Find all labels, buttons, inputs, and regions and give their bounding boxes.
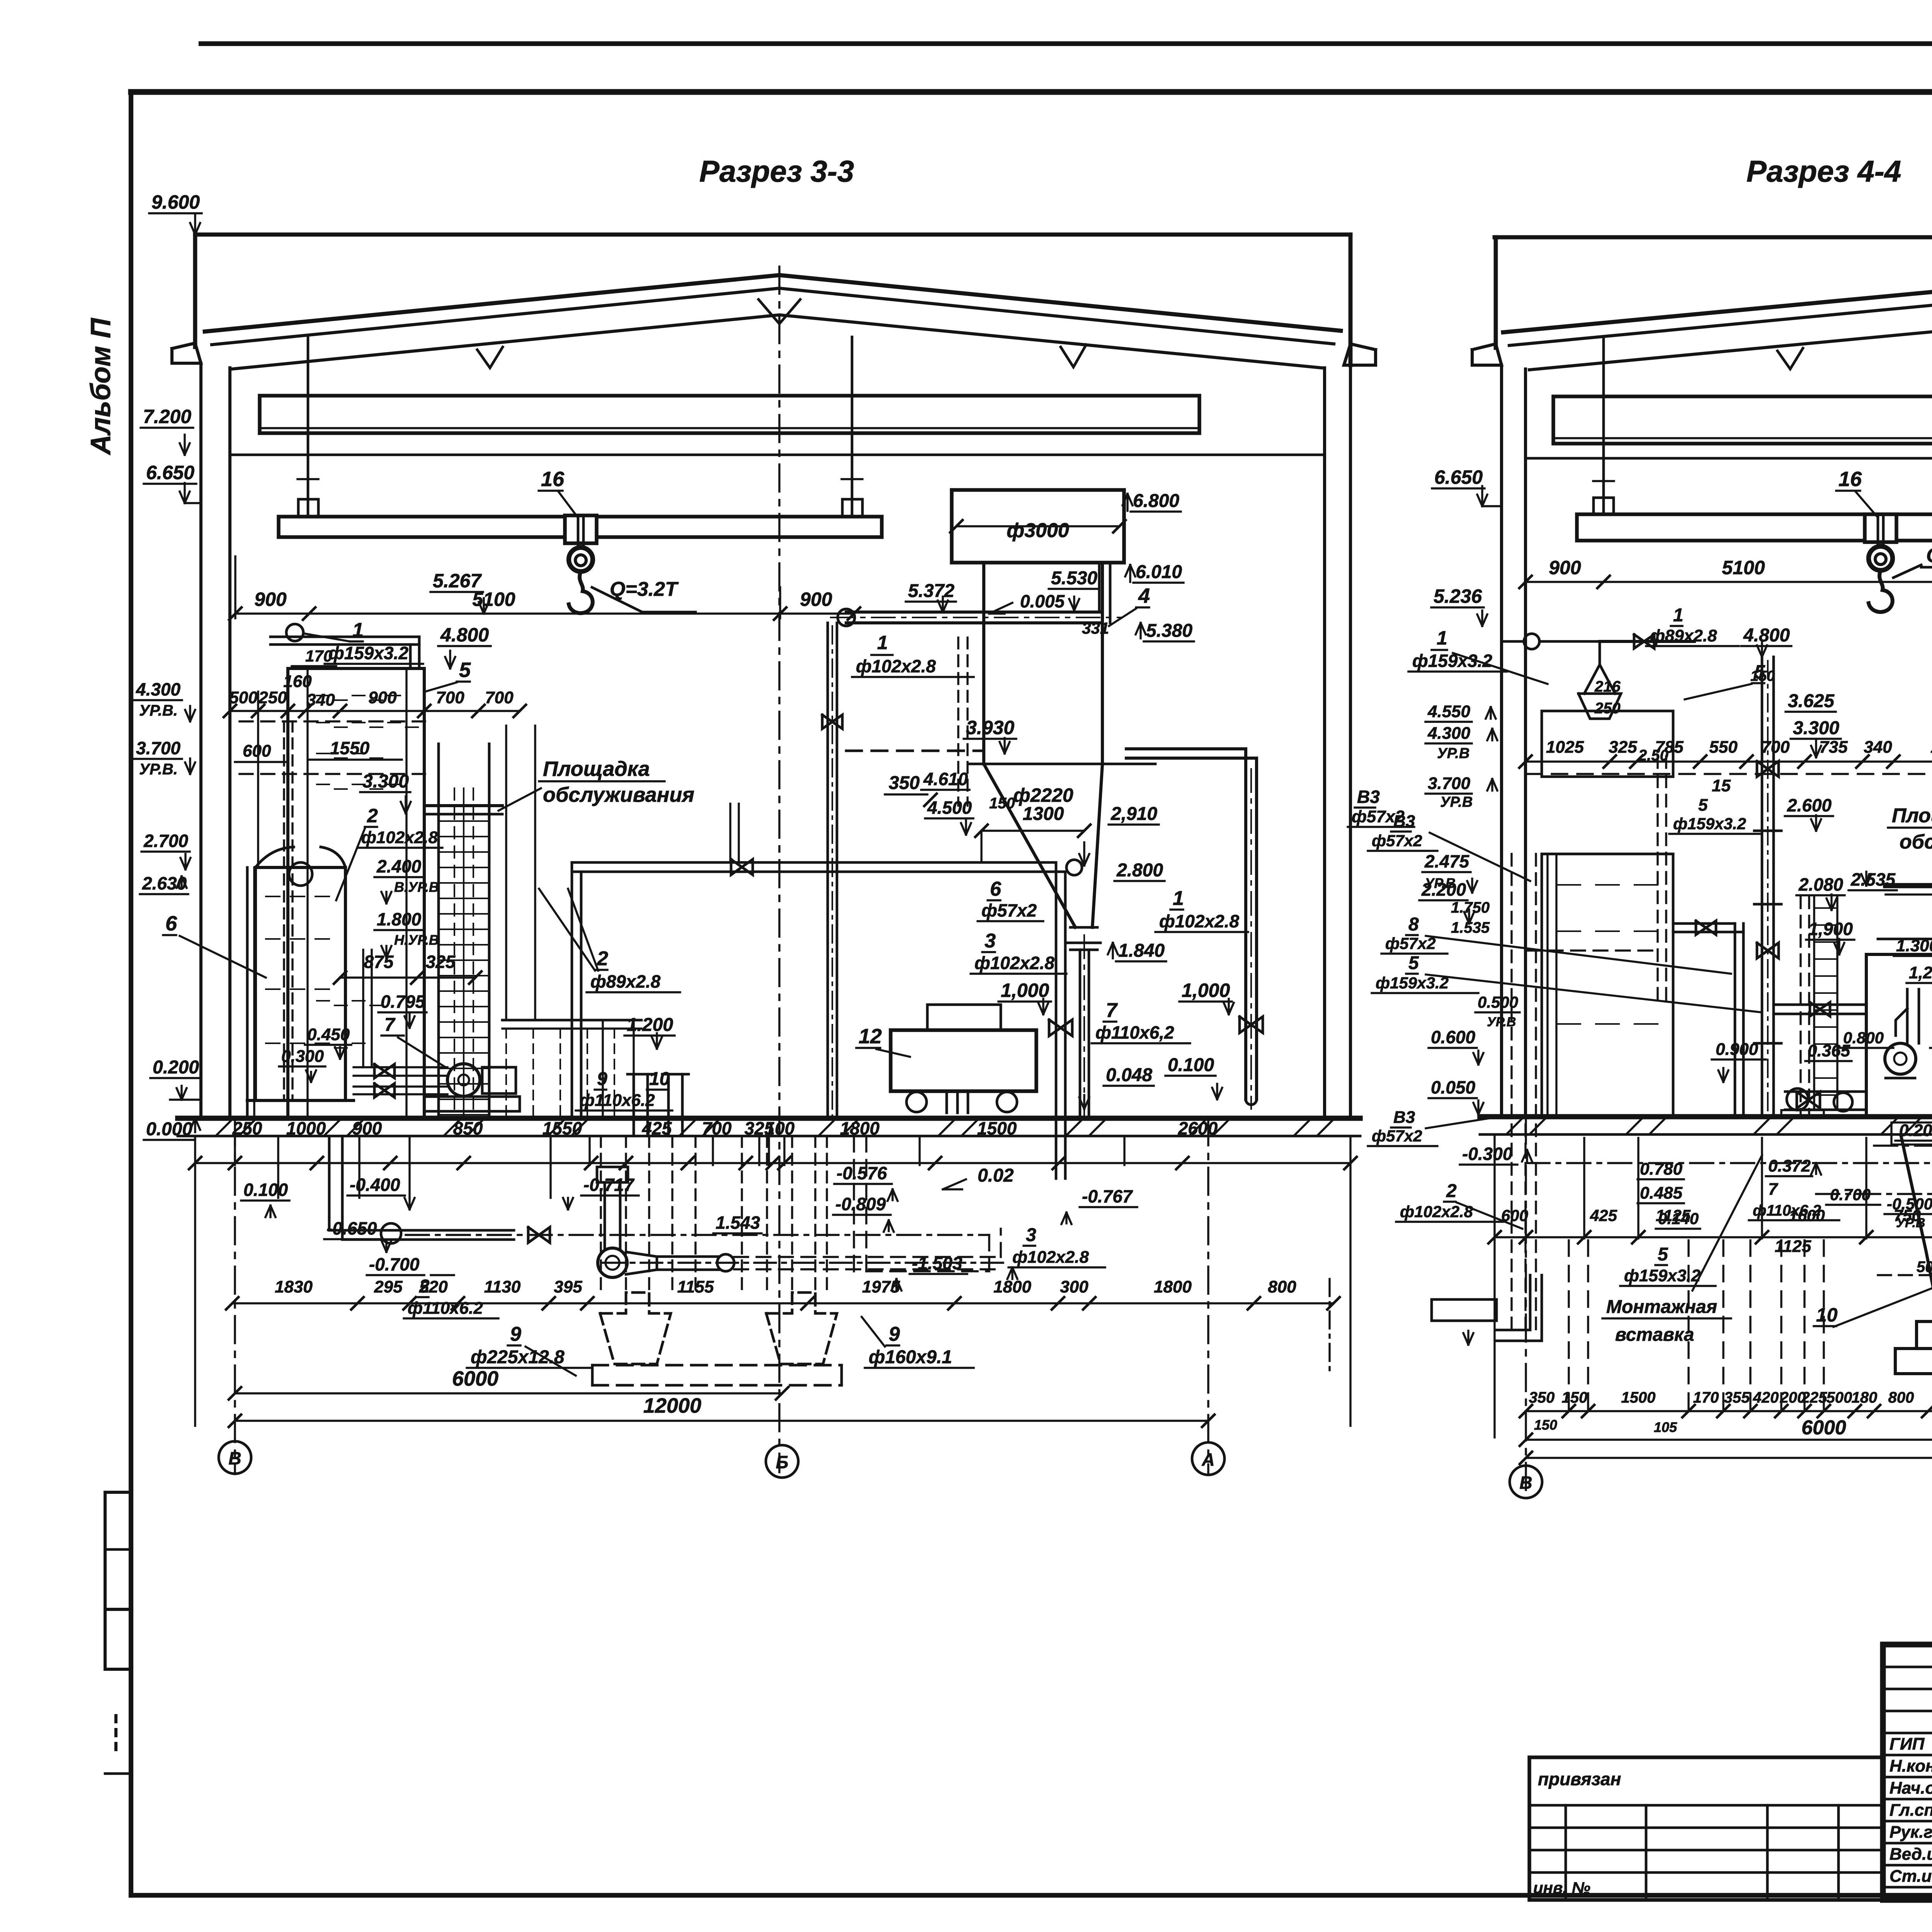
sec4 ext vertical b xyxy=(1568,1240,1570,1412)
svg-text:0.100: 0.100 xyxy=(1168,1055,1214,1075)
svg-text:6: 6 xyxy=(990,878,1002,900)
svg-text:ф110х6,2: ф110х6,2 xyxy=(1095,1022,1174,1043)
sec3 grid circle V xyxy=(219,1441,251,1474)
svg-text:0.048: 0.048 xyxy=(1106,1065,1152,1085)
sec4 unit5 funnel xyxy=(1584,665,1615,694)
sec3 riser pipe a xyxy=(827,623,829,1118)
svg-text:331: 331 xyxy=(1082,619,1109,637)
sec4 dim 6000 line xyxy=(1526,1439,1932,1440)
sec4 dim row A below floor xyxy=(1495,1236,1932,1238)
svg-text:1.535: 1.535 xyxy=(1451,919,1490,936)
svg-text:1830: 1830 xyxy=(275,1277,313,1296)
svg-text:УР.В.: УР.В. xyxy=(139,702,178,719)
sec3 ladder rail R xyxy=(488,744,491,1118)
svg-text:295: 295 xyxy=(374,1277,403,1296)
sec3 crane trolley xyxy=(565,515,597,543)
svg-text:7.200: 7.200 xyxy=(143,406,191,427)
svg-text:1000: 1000 xyxy=(286,1118,326,1138)
sec4 dim row B below floor xyxy=(1526,1410,1932,1412)
svg-text:7: 7 xyxy=(1106,999,1118,1022)
sec3 pipe centerline bf xyxy=(406,1234,989,1236)
svg-text:150: 150 xyxy=(1534,1417,1557,1433)
sec3 dashed riser pair xyxy=(957,638,959,806)
svg-text:В.УР.В: В.УР.В xyxy=(394,879,439,895)
svg-text:2.400: 2.400 xyxy=(376,856,422,876)
sec3 lower platform xyxy=(502,1019,641,1022)
svg-text:0.372: 0.372 xyxy=(1768,1156,1811,1175)
sec4 ext vertical xyxy=(1637,1138,1639,1238)
sec4 pipe h2 xyxy=(1774,1003,1866,1006)
svg-text:ф159х3.2: ф159х3.2 xyxy=(328,643,408,663)
sec4 platform thick line xyxy=(1886,883,1932,888)
svg-text:4.800: 4.800 xyxy=(440,624,489,646)
sec3 crane clamp left xyxy=(298,499,318,517)
svg-text:Разрез 3-3: Разрез 3-3 xyxy=(699,154,854,188)
sec3 suction reducer xyxy=(626,1252,657,1274)
svg-text:В: В xyxy=(228,1448,241,1468)
sec4 roof truss bottom chord xyxy=(1529,318,1932,370)
sec3 pit dashed vertical xyxy=(826,1136,828,1293)
svg-text:ф89х2.8: ф89х2.8 xyxy=(1650,626,1717,645)
svg-text:1,900: 1,900 xyxy=(1808,919,1853,939)
sec4 pipe h1 xyxy=(1673,922,1735,925)
svg-text:ф89х2.8: ф89х2.8 xyxy=(590,971,661,992)
svg-text:5: 5 xyxy=(1658,1244,1668,1265)
svg-text:2,910: 2,910 xyxy=(1111,804,1157,824)
sec4 vertical pump xyxy=(1885,1043,1916,1074)
svg-text:-0.576: -0.576 xyxy=(837,1163,887,1183)
sec3 pit dashed vertical xyxy=(694,1136,696,1293)
sec3 hook wheel xyxy=(569,548,593,571)
svg-text:1: 1 xyxy=(352,619,364,641)
sec4 VZ pipe dashed xyxy=(1526,949,1658,951)
sec4 valve cluster circle xyxy=(1834,1093,1852,1111)
svg-text:900: 900 xyxy=(1549,557,1581,578)
sec3 platform top xyxy=(425,804,502,807)
sec4 ext vertical b xyxy=(1823,1240,1825,1412)
title block outer xyxy=(1883,1645,1932,1900)
svg-text:735: 735 xyxy=(1819,738,1848,757)
svg-text:6: 6 xyxy=(165,912,177,935)
sec3 ext vertical xyxy=(918,1138,920,1165)
sec3 rod a xyxy=(505,726,507,1020)
svg-text:ф3000: ф3000 xyxy=(1007,519,1069,542)
svg-text:3: 3 xyxy=(1026,1225,1036,1245)
sec3 rod b xyxy=(534,726,536,1020)
svg-text:Б: Б xyxy=(776,1452,789,1472)
sec3 dim row below floor xyxy=(195,1162,1350,1164)
svg-text:350: 350 xyxy=(1529,1389,1555,1406)
sec3 ceiling 7.200 line xyxy=(230,454,1325,456)
svg-text:420: 420 xyxy=(1753,1389,1779,1406)
svg-text:15: 15 xyxy=(1712,776,1731,795)
svg-text:5: 5 xyxy=(1408,953,1419,973)
svg-text:900: 900 xyxy=(800,588,832,610)
svg-text:1300: 1300 xyxy=(1023,804,1064,824)
svg-text:4.550: 4.550 xyxy=(1427,702,1471,721)
sec3 pit dashed vertical xyxy=(791,1136,793,1293)
svg-text:В3: В3 xyxy=(1393,812,1415,831)
sec4 riser dashed xyxy=(1656,756,1658,1005)
sec4 riser a xyxy=(1761,657,1764,1117)
sec4 dashed pipe bf a xyxy=(1510,854,1512,1333)
sec3 truss web right xyxy=(1061,345,1086,367)
svg-text:Q=3.2Т: Q=3.2Т xyxy=(610,578,679,600)
sec3 crane hook xyxy=(569,571,593,613)
sec4 pipe run b xyxy=(1526,1162,1932,1164)
sec4 riser b xyxy=(1734,923,1736,1117)
sec3 axis A line xyxy=(1207,1118,1209,1474)
svg-text:1975: 1975 xyxy=(862,1277,900,1296)
sec3 pump volute xyxy=(447,1064,480,1096)
svg-text:3.700: 3.700 xyxy=(1428,774,1471,793)
sec4 drain box left xyxy=(1432,1299,1497,1321)
sec3 pipe left of tank6 xyxy=(246,867,249,1118)
sec3 floor line 0.000 xyxy=(178,1116,1360,1121)
svg-text:5.530: 5.530 xyxy=(1051,568,1097,588)
sec4 pipe run a xyxy=(1874,1145,1932,1146)
svg-text:0.100: 0.100 xyxy=(243,1180,288,1200)
sec4 floor hatch xyxy=(1754,1118,1770,1134)
frame top border xyxy=(131,89,1932,95)
svg-text:250: 250 xyxy=(1594,700,1621,717)
sec3 foundation trapezoid L xyxy=(600,1293,671,1364)
sec3 base slab top xyxy=(592,1364,842,1367)
sec3 floor hatch xyxy=(549,1120,564,1135)
sec3 tank4 cone right xyxy=(1092,764,1102,927)
sec3 ceiling beam band xyxy=(260,396,1199,433)
svg-text:6000: 6000 xyxy=(1801,1417,1846,1439)
svg-text:4.300: 4.300 xyxy=(136,679,181,699)
svg-text:1.750: 1.750 xyxy=(1451,899,1490,916)
sec3 dashed pipe 3.930 xyxy=(846,750,981,752)
svg-text:700: 700 xyxy=(485,688,514,707)
svg-text:160: 160 xyxy=(283,672,312,691)
svg-text:1,200: 1,200 xyxy=(1909,963,1932,982)
sec3 crane dim line xyxy=(235,612,854,614)
svg-text:4.800: 4.800 xyxy=(1743,625,1790,646)
sec3 vessel5 inner R xyxy=(405,668,407,1118)
sec3 floor hatch xyxy=(216,1120,232,1135)
svg-text:2.200: 2.200 xyxy=(1421,879,1466,900)
svg-text:395: 395 xyxy=(554,1277,582,1296)
sec4 crane trolley xyxy=(1865,514,1896,542)
sec4 ext vertical b xyxy=(1803,1240,1805,1412)
sec3 roof chord 2 xyxy=(212,288,1334,345)
svg-text:Н.УР.В: Н.УР.В xyxy=(394,932,439,948)
svg-text:700: 700 xyxy=(1761,738,1790,757)
sec3 roof top chord xyxy=(205,275,1341,332)
svg-text:300: 300 xyxy=(1060,1277,1088,1296)
svg-text:6.650: 6.650 xyxy=(1434,466,1483,488)
svg-text:ф102х2.8: ф102х2.8 xyxy=(1159,911,1239,931)
svg-text:Рук.гр.: Рук.гр. xyxy=(1889,1823,1932,1842)
svg-text:0.02: 0.02 xyxy=(978,1165,1014,1186)
sec3 pipe unit12 xyxy=(572,862,1056,1179)
sec3 crane rod right xyxy=(851,337,854,517)
sec3 right pipe outer xyxy=(1126,749,1246,1099)
svg-text:500: 500 xyxy=(1827,1389,1852,1406)
sec3 drop pipe bf xyxy=(328,1136,331,1217)
svg-text:Q=3.2Т: Q=3.2Т xyxy=(1926,544,1932,567)
svg-text:1: 1 xyxy=(1173,887,1184,910)
sec3 right parapet outer xyxy=(1349,235,1353,365)
sec3 feed pipe flange circle xyxy=(838,609,855,626)
sec3 tank6 body xyxy=(255,867,345,1100)
svg-text:2.475: 2.475 xyxy=(1424,851,1470,871)
sec3 pump motor xyxy=(482,1067,516,1094)
sec4 pit base bottom xyxy=(1895,1372,1932,1375)
sec3 unit12 body xyxy=(891,1030,1036,1091)
sec4 tank13 flange xyxy=(1878,938,1932,940)
sec3 floor hatch xyxy=(444,1120,460,1135)
sec4 tank13 body xyxy=(1866,954,1932,1117)
svg-text:ф2220: ф2220 xyxy=(1013,784,1073,806)
sec3 floor hatch xyxy=(1294,1120,1310,1135)
svg-text:ф57х2: ф57х2 xyxy=(981,900,1037,920)
svg-text:ф110х6.2: ф110х6.2 xyxy=(580,1091,655,1110)
svg-text:0.140: 0.140 xyxy=(1658,1209,1699,1228)
svg-text:-0.650: -0.650 xyxy=(327,1218,377,1238)
svg-text:3.930: 3.930 xyxy=(966,717,1014,738)
sec4 unit5 pipe up xyxy=(1599,641,1601,665)
left margin tick xyxy=(105,1772,131,1775)
sec4 injector elbow xyxy=(1896,1009,1907,1036)
svg-text:875: 875 xyxy=(364,952,394,972)
sec3 pipe flange bf xyxy=(381,1223,401,1243)
sec3 tank6 top pump xyxy=(289,862,312,886)
svg-text:785: 785 xyxy=(1655,738,1684,757)
sec3 left cornice slab xyxy=(172,343,201,363)
sec4 drain elbow xyxy=(1497,1275,1530,1330)
sec3 ceiling band inner line xyxy=(260,427,1199,429)
svg-text:5: 5 xyxy=(1698,796,1708,815)
sec3 ext vertical xyxy=(588,1138,590,1165)
sec4 ceiling 7.200 line xyxy=(1526,457,1932,460)
svg-text:УР.В.: УР.В. xyxy=(139,761,178,778)
sec4 pit funnel outline xyxy=(1901,1136,1932,1321)
svg-text:6000: 6000 xyxy=(452,1367,498,1390)
sec3 unit12 hat xyxy=(927,1005,1001,1030)
sec3 grid circle A xyxy=(1192,1442,1225,1475)
svg-text:0.600: 0.600 xyxy=(1431,1027,1476,1047)
sec3 left parapet outer xyxy=(193,235,197,347)
svg-text:50: 50 xyxy=(1917,1259,1932,1276)
sec4 ladder rail a xyxy=(1813,896,1815,1109)
sec3 top pipe flange xyxy=(286,624,303,641)
sec4 dim 12000 line xyxy=(1526,1457,1932,1459)
sec4 crane beam xyxy=(1577,514,1932,541)
svg-text:-0.700: -0.700 xyxy=(369,1254,420,1274)
sec3 vessel5 outer xyxy=(288,668,424,1118)
sec3 ext vertical xyxy=(1123,1138,1125,1165)
svg-text:3.625: 3.625 xyxy=(1788,691,1835,711)
sec3 crane clamp right xyxy=(842,499,862,517)
sec3 ridge web V xyxy=(759,299,800,324)
sec3 dim row top xyxy=(230,710,520,712)
svg-text:1125: 1125 xyxy=(1775,1237,1811,1256)
sec3 drop pipe xyxy=(1079,950,1082,1118)
sec3 ext vertical xyxy=(549,1138,551,1165)
svg-text:2.600: 2.600 xyxy=(1787,795,1832,815)
sec3 dim 12000 xyxy=(235,1420,1208,1422)
sec3 floor hatch xyxy=(325,1120,340,1135)
sec3 top 9.600 line / parapet top xyxy=(195,233,1350,237)
svg-text:В3: В3 xyxy=(1357,787,1380,807)
svg-text:170: 170 xyxy=(1693,1389,1719,1406)
sec4 injector pipe xyxy=(1906,989,1909,1043)
svg-text:2.080: 2.080 xyxy=(1798,874,1844,895)
sec4 unit5 tank xyxy=(1542,711,1673,777)
svg-text:ф57х2: ф57х2 xyxy=(1372,1127,1422,1145)
svg-text:7: 7 xyxy=(1768,1180,1779,1199)
svg-text:700: 700 xyxy=(436,688,464,707)
svg-text:550: 550 xyxy=(1709,738,1738,757)
sec3 riser x1480 xyxy=(571,862,573,1118)
sec4 floor hatch xyxy=(1507,1118,1522,1134)
sec3 unit12 wheel L xyxy=(906,1092,927,1112)
sec4 top 9.600 line xyxy=(1495,235,1932,240)
sec3 foundation trapezoid R xyxy=(766,1293,837,1364)
svg-text:4.500: 4.500 xyxy=(927,798,972,818)
sec4 small pump xyxy=(1787,1088,1808,1110)
svg-text:0.900: 0.900 xyxy=(1716,1040,1759,1059)
svg-text:1155: 1155 xyxy=(677,1277,714,1296)
svg-text:2.630: 2.630 xyxy=(142,873,187,893)
svg-text:355: 355 xyxy=(1724,1389,1750,1406)
svg-text:4.300: 4.300 xyxy=(1427,724,1471,743)
sec3 cone flange 1 xyxy=(1070,926,1097,929)
sec4 roof chord 2 xyxy=(1509,292,1932,347)
sec4 left tank body xyxy=(1542,854,1673,1117)
sec4 ext vertical xyxy=(1865,1138,1867,1238)
svg-text:4.610: 4.610 xyxy=(923,769,968,789)
svg-text:340: 340 xyxy=(1864,738,1892,757)
sec3 tank4 shell right xyxy=(1101,563,1104,764)
sec3 feed pipe elbow xyxy=(1098,564,1101,612)
attachment table outer xyxy=(1529,1757,1883,1900)
sec3 floor hatch xyxy=(939,1120,954,1135)
svg-text:900: 900 xyxy=(368,688,397,707)
sec4 crane dim line xyxy=(1526,581,1932,583)
sec4 ladder rail b xyxy=(1836,896,1838,1109)
sec4 roof top chord xyxy=(1503,279,1932,334)
svg-text:0.005: 0.005 xyxy=(1020,591,1065,611)
sec3 tank4 shell left xyxy=(982,563,985,764)
sec4 left parapet outer xyxy=(1494,237,1498,348)
sec3 pump base xyxy=(424,1097,520,1111)
svg-text:0.365: 0.365 xyxy=(1808,1041,1850,1060)
svg-text:1800: 1800 xyxy=(840,1118,880,1138)
sec4 left cornice slab xyxy=(1472,344,1502,365)
sec4 truss web left xyxy=(1777,348,1803,369)
svg-text:5: 5 xyxy=(459,658,471,682)
svg-text:16: 16 xyxy=(1838,468,1862,491)
svg-text:-0.767: -0.767 xyxy=(1082,1186,1133,1206)
svg-text:325: 325 xyxy=(1609,738,1637,757)
sec3 pit dashed vertical xyxy=(741,1136,743,1293)
svg-text:ф102х2.8: ф102х2.8 xyxy=(975,953,1054,973)
left margin staple mark 2 xyxy=(105,1609,131,1669)
svg-text:обслуживания: обслуживания xyxy=(1900,831,1932,853)
sec3 crane rod left xyxy=(307,337,310,517)
sec3 feed pipe top xyxy=(846,611,1099,614)
sec4 left wall outer xyxy=(1500,365,1503,1117)
left margin dashed mark xyxy=(114,1716,117,1750)
sec3 left wall outer xyxy=(199,363,202,1118)
sec3 ext vertical xyxy=(277,1138,279,1165)
sec3 unit12 wheel R xyxy=(997,1092,1017,1112)
sec3 pipe9 riser xyxy=(633,1074,635,1136)
svg-text:ф57х2: ф57х2 xyxy=(1372,832,1422,850)
svg-text:500: 500 xyxy=(229,688,258,707)
svg-text:-0.500: -0.500 xyxy=(1887,1195,1932,1213)
svg-text:0.795: 0.795 xyxy=(381,992,426,1012)
svg-text:10: 10 xyxy=(1816,1304,1838,1326)
sec4 floor line xyxy=(1480,1114,1932,1119)
svg-text:ф102х2.8: ф102х2.8 xyxy=(1012,1248,1089,1267)
sec4 ceiling band inner xyxy=(1553,437,1932,439)
svg-text:2.700: 2.700 xyxy=(143,831,189,851)
svg-text:УР.В: УР.В xyxy=(1896,1216,1925,1230)
sec3 rod f89 a xyxy=(729,804,731,862)
sec4 left wall inner xyxy=(1524,369,1527,1117)
sec3 pipe10 riser xyxy=(667,1074,670,1136)
svg-text:ГИП: ГИП xyxy=(1889,1735,1925,1753)
sec3 floor line lower xyxy=(178,1135,1360,1138)
sec4 ext vertical xyxy=(1583,1138,1585,1238)
sec3 dim 6000 xyxy=(235,1392,782,1394)
sec3 roof truss bottom chord xyxy=(232,315,1321,369)
svg-text:4: 4 xyxy=(1138,584,1150,607)
svg-text:1500: 1500 xyxy=(1621,1389,1656,1406)
svg-text:325: 325 xyxy=(426,952,456,972)
sec4 crane rod left xyxy=(1602,339,1605,514)
left margin staple mark 1 xyxy=(105,1492,131,1609)
top scan line xyxy=(201,41,1932,46)
sec4 ceiling beam band xyxy=(1553,396,1932,444)
sec3 ladder rail L xyxy=(437,744,440,1118)
svg-text:Вед.инж.: Вед.инж. xyxy=(1889,1845,1932,1864)
svg-text:1: 1 xyxy=(877,632,888,653)
sec4 pipe solid a xyxy=(1546,854,1548,1117)
sec3 tank6 dome xyxy=(255,847,294,867)
svg-text:9: 9 xyxy=(510,1323,521,1345)
svg-text:Ст.инж.: Ст.инж. xyxy=(1889,1867,1932,1886)
svg-text:7: 7 xyxy=(384,1015,396,1035)
svg-text:3.700: 3.700 xyxy=(136,738,181,758)
frame bottom border xyxy=(131,1893,1932,1898)
svg-text:Площадка: Площадка xyxy=(543,757,650,781)
sec3 ext vertical xyxy=(408,1138,410,1165)
svg-text:0.450: 0.450 xyxy=(307,1025,350,1044)
svg-text:1130: 1130 xyxy=(484,1277,521,1296)
svg-text:ф225х12.8: ф225х12.8 xyxy=(471,1347,565,1367)
sec3 water level 3.700 xyxy=(240,773,425,775)
sec4 axis V line xyxy=(1525,1117,1527,1495)
svg-text:вставка: вставка xyxy=(1615,1325,1694,1345)
sec3 suction centerline xyxy=(603,1262,1005,1264)
svg-text:0.200: 0.200 xyxy=(153,1057,199,1078)
sec4 ext vertical b xyxy=(1722,1240,1724,1412)
svg-text:6.010: 6.010 xyxy=(1136,562,1182,582)
sec3 pit dashed vertical xyxy=(814,1136,816,1293)
svg-text:3: 3 xyxy=(985,930,996,952)
svg-text:3.300: 3.300 xyxy=(1793,718,1839,738)
svg-text:180: 180 xyxy=(1852,1389,1878,1406)
svg-text:5.380: 5.380 xyxy=(1146,621,1192,641)
svg-text:900: 900 xyxy=(254,588,287,610)
